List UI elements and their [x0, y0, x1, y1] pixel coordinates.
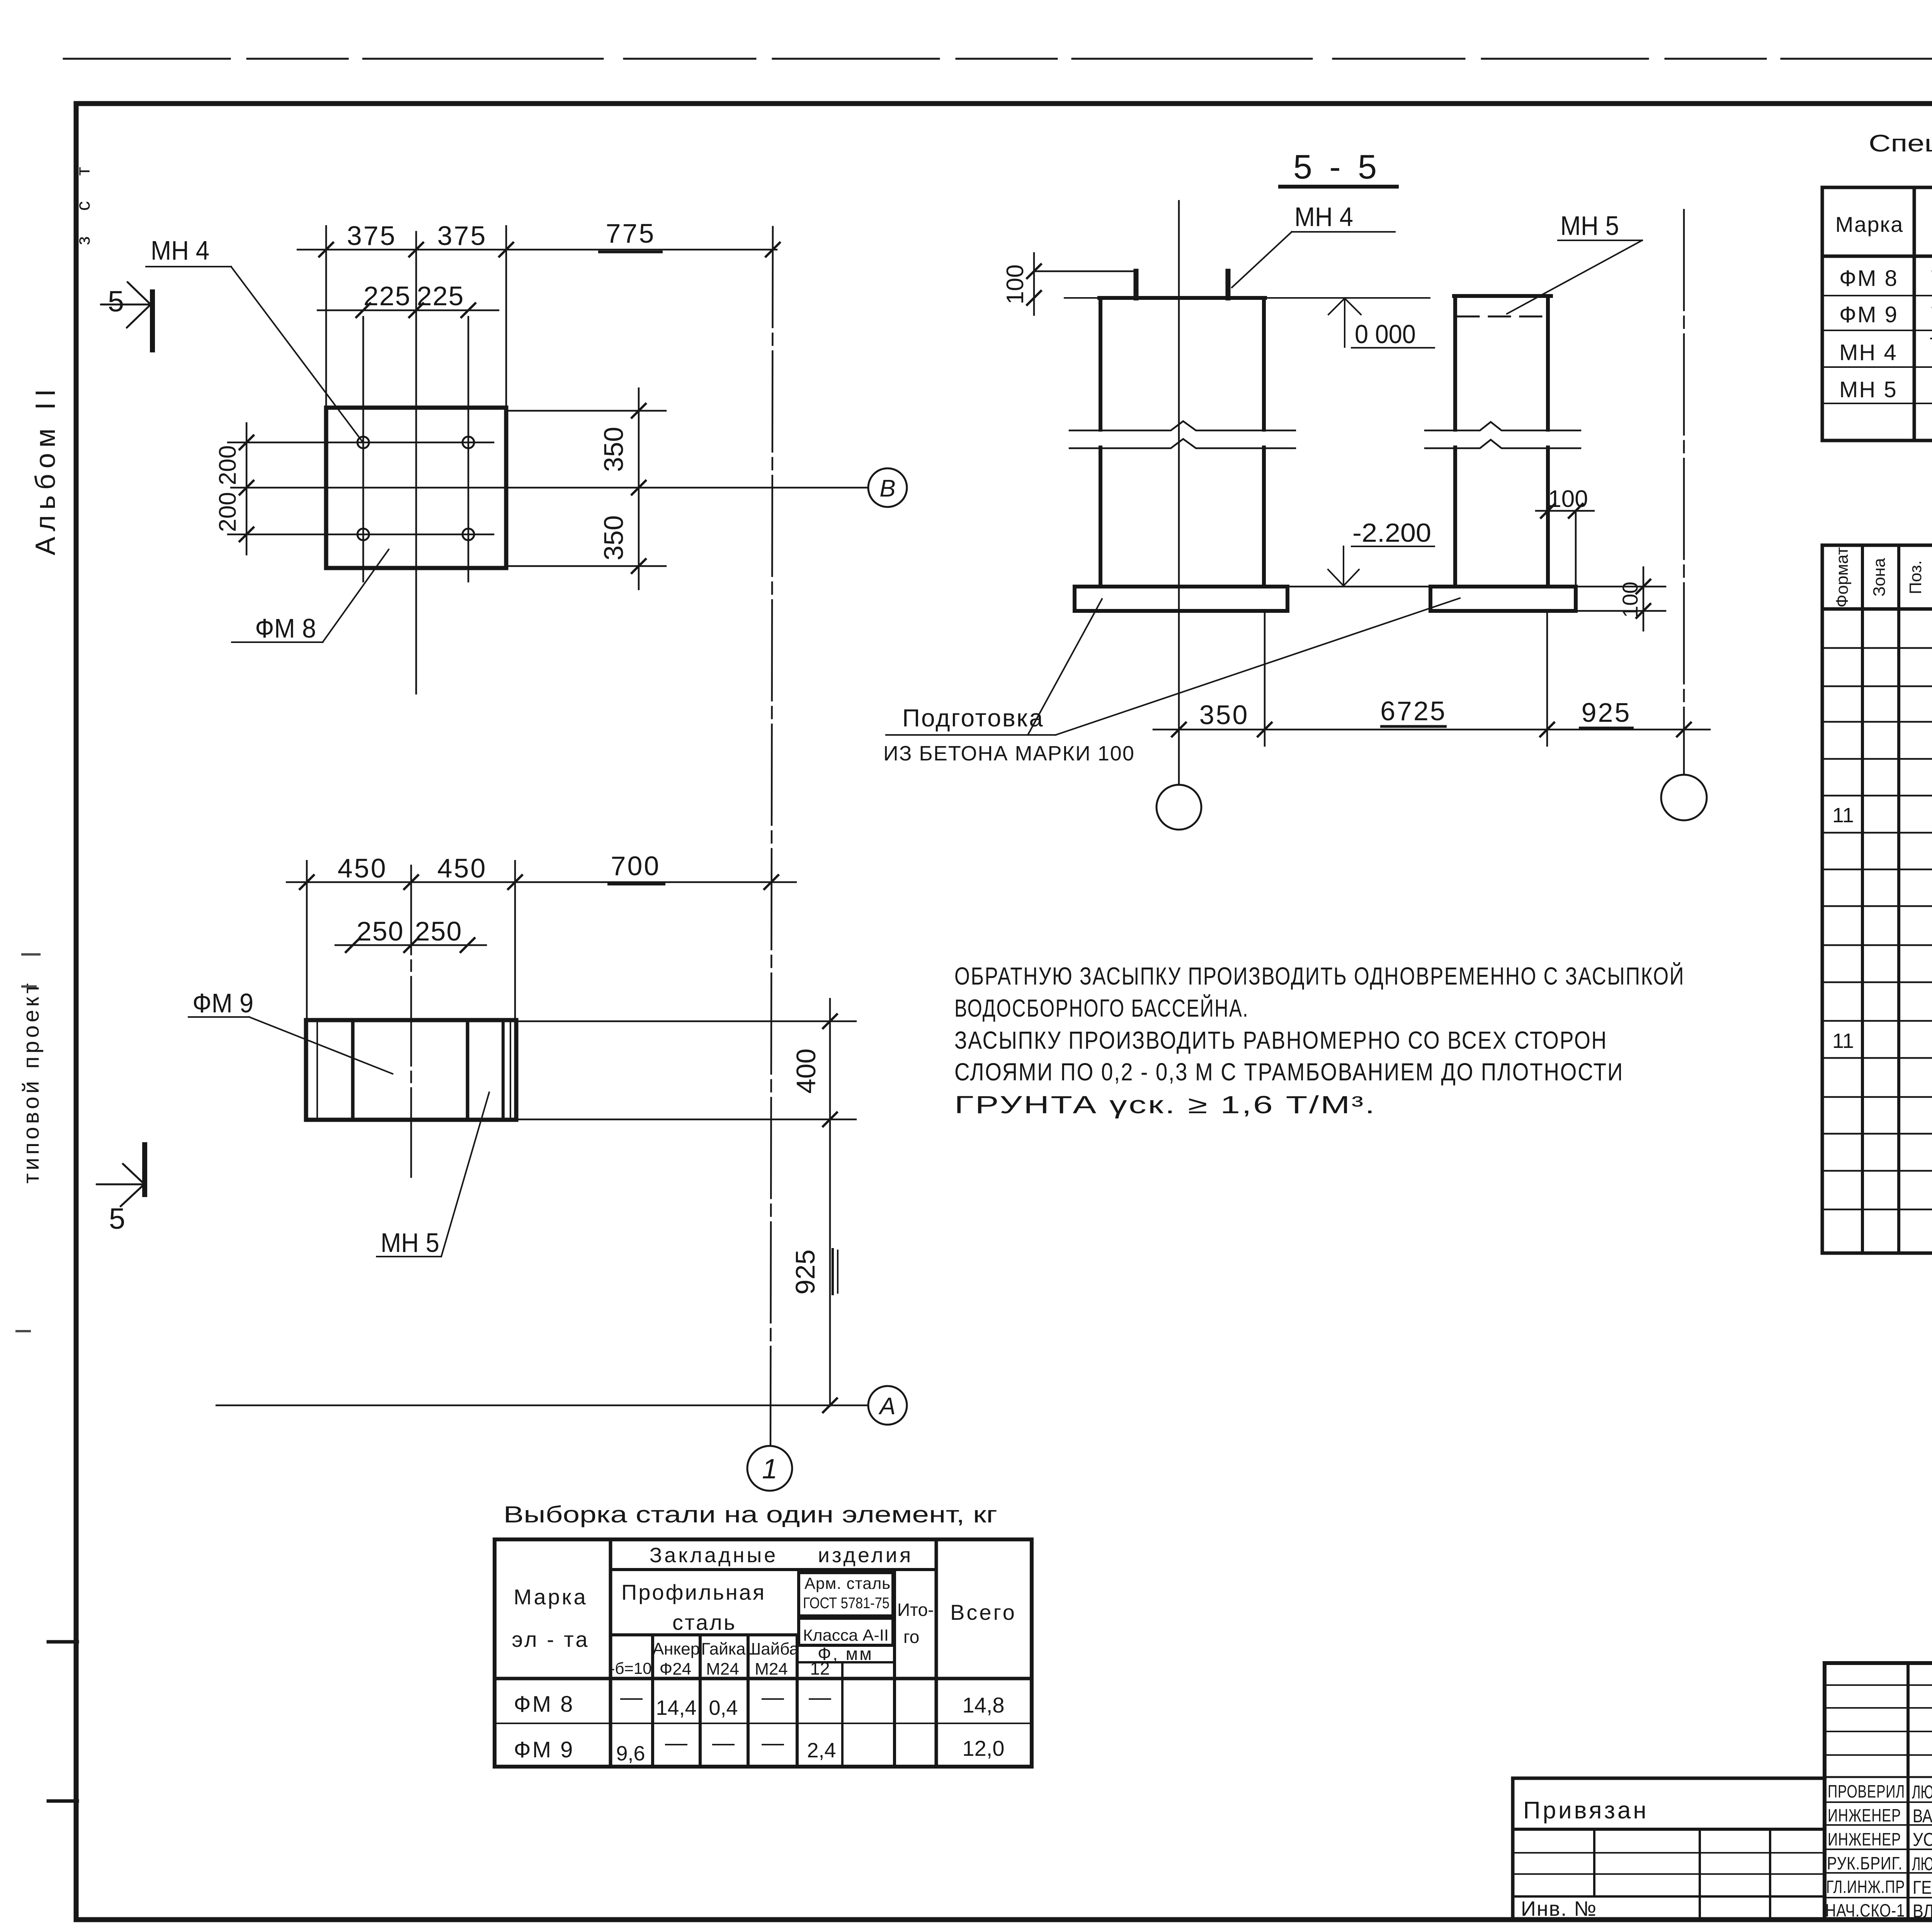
svg-text:—: — [762, 1730, 784, 1755]
extension pad top right [1578, 586, 1665, 588]
svg-text:Ито-: Ито- [897, 1600, 934, 1620]
steel f mm bottom [797, 1661, 893, 1663]
FM8 column left edge upper [1099, 298, 1102, 430]
svg-text:225: 225 [364, 281, 411, 311]
dim line 250-250 [335, 944, 486, 946]
FM8 column top edge [1099, 296, 1265, 300]
svg-text:ФМ 9: ФМ 9 [514, 1737, 575, 1762]
svg-text:ФМ 9: ФМ 9 [1839, 302, 1898, 327]
svg-text:В: В [879, 475, 895, 502]
foundation FM8 outline [326, 408, 506, 568]
svg-text:—: — [712, 1730, 735, 1755]
FM9 inner line thick left [351, 1020, 355, 1120]
svg-text:100: 100 [1618, 582, 1642, 617]
svg-text:350: 350 [1199, 700, 1249, 730]
FM9 column top edge [1454, 294, 1551, 298]
extension left pad edge down [1264, 613, 1266, 746]
svg-text:ИНЖЕНЕР: ИНЖЕНЕР [1828, 1829, 1901, 1849]
svg-text:ФМ 9: ФМ 9 [192, 988, 253, 1018]
svg-text:ГРУНТА γск. ≥ 1,6 Т/М³.: ГРУНТА γск. ≥ 1,6 Т/М³. [954, 1091, 1376, 1119]
svg-text:ПРОВЕРИЛ: ПРОВЕРИЛ [1828, 1781, 1905, 1801]
svg-text:Ф24: Ф24 [660, 1660, 691, 1679]
MN4 label line [1292, 231, 1395, 233]
svg-text:СЛОЯМИ ПО 0,2 - 0,3 М С ТРАМБО: СЛОЯМИ ПО 0,2 - 0,3 М С ТРАМБОВАНИЕМ ДО … [954, 1058, 1624, 1086]
100 dim extension top [1034, 270, 1135, 272]
svg-text:5 - 5: 5 - 5 [1293, 148, 1381, 186]
FM9 inner line double right a [502, 1020, 505, 1120]
FM8 horizontal centerline to grid B [231, 487, 868, 489]
svg-text:925: 925 [1582, 697, 1631, 728]
bolt row line upper [228, 442, 493, 444]
steel zakladnye header bottom [611, 1568, 936, 1571]
svg-text:6725: 6725 [1380, 696, 1447, 726]
MN5 label line [1558, 240, 1642, 241]
0.000 underline [1352, 347, 1434, 349]
signature table left edge [1823, 1663, 1827, 1920]
title block top edge [1825, 1661, 1932, 1665]
privyazan row bottom [1513, 1828, 1825, 1831]
svg-text:М24: М24 [706, 1660, 739, 1679]
dim line 450-450-700 [287, 881, 796, 883]
section mark 5 lower: arrowhead [123, 1164, 144, 1184]
svg-text:з с т: з с т [72, 157, 94, 245]
footing pad FM9 [1430, 587, 1576, 611]
section mark 5 lower: bar [142, 1142, 147, 1197]
footing pad FM8 [1075, 587, 1287, 611]
svg-text:Гайка: Гайка [701, 1639, 746, 1658]
extension pad bottom right [1578, 610, 1665, 612]
svg-text:375: 375 [437, 221, 487, 251]
steel klassa box [799, 1618, 893, 1645]
svg-text:-2.200: -2.200 [1352, 518, 1431, 548]
MN5 plate dashed [1458, 316, 1549, 318]
svg-text:ГЛ.ИНЖ.ПР: ГЛ.ИНЖ.ПР [1826, 1877, 1905, 1897]
dimension line 375-375-775 [298, 249, 777, 251]
svg-text:—: — [620, 1685, 643, 1710]
svg-text:925: 925 [790, 1250, 820, 1295]
bolt row line lower [228, 534, 493, 536]
svg-text:—: — [665, 1730, 687, 1755]
svg-text:100: 100 [1548, 486, 1588, 512]
svg-text:100: 100 [1002, 264, 1029, 304]
extension right col edge down [1546, 613, 1548, 746]
svg-text:МН 4: МН 4 [151, 235, 209, 265]
grid circle right under section [1661, 775, 1707, 820]
svg-text:225: 225 [417, 281, 464, 311]
MN5 leader to plate [1507, 240, 1642, 314]
privyazan box [1513, 1778, 1825, 1920]
MN5 leader [441, 1092, 489, 1257]
svg-text:ВАСИЛЬЕВА: ВАСИЛЬЕВА [1913, 1806, 1932, 1827]
podgotovka leader to left pad [1028, 599, 1102, 735]
FM9 column left edge lower [1453, 447, 1457, 587]
svg-text:РУК.БРИГ.: РУК.БРИГ. [1827, 1853, 1903, 1873]
svg-text:Альбом II: Альбом II [30, 384, 61, 555]
signature col name divider [1906, 1663, 1910, 1920]
svg-text:Марка: Марка [514, 1585, 587, 1609]
svg-text:ОБРАТНУЮ ЗАСЫПКУ ПРОИЗВОДИТЬ О: ОБРАТНУЮ ЗАСЫПКУ ПРОИЗВОДИТЬ ОДНОВРЕМЕНН… [954, 962, 1685, 990]
svg-text:МН 5: МН 5 [381, 1228, 439, 1258]
svg-text:0,4: 0,4 [709, 1696, 738, 1719]
svg-text:-б=10: -б=10 [609, 1659, 651, 1677]
anchor stub left [1134, 271, 1139, 298]
podgotovka leader to right pad [1056, 598, 1460, 735]
foundation FM9 outline [306, 1020, 516, 1120]
FM9 column left edge upper [1453, 296, 1457, 430]
extension right [514, 861, 516, 1020]
FM8 leader [323, 549, 389, 642]
extension top right [519, 1020, 856, 1022]
FM8 vertical centerline [415, 232, 417, 694]
section mark 5 upper: arrowhead [128, 282, 151, 305]
grid line 1 vertical dash-dot [770, 227, 773, 1445]
svg-text:ВЛАСКИН: ВЛАСКИН [1913, 1901, 1932, 1922]
steel sub col 4 [796, 1635, 799, 1767]
steel profilnaya bottom [611, 1633, 797, 1636]
anchor bolt MN4 bottom-left [357, 529, 369, 540]
fold tick left upper [48, 1640, 77, 1644]
MN5 label underline [377, 1256, 441, 1257]
svg-text:2,4: 2,4 [807, 1739, 836, 1762]
svg-text:Класса А-II: Класса А-II [803, 1626, 889, 1644]
svg-text:НАЧ.СКО-1: НАЧ.СКО-1 [1825, 1900, 1905, 1920]
FM9 inner line thick right [466, 1020, 469, 1120]
right extension bottom [509, 565, 666, 567]
FM9 inner line thin left [316, 1020, 318, 1120]
ticks of section 5-5 dims [1026, 264, 1042, 279]
svg-text:Закладные: Закладные [650, 1544, 778, 1567]
FM9 column right edge lower [1546, 447, 1550, 587]
100 dim vertical line [1033, 253, 1035, 315]
FM9 label underline [189, 1016, 249, 1018]
right dim line 400 [829, 999, 831, 1119]
FM9 centerline dash-dot [410, 866, 412, 1182]
spec1 col Marka [1913, 187, 1916, 440]
svg-text:Шайба: Шайба [745, 1639, 799, 1658]
svg-text:Поз.: Поз. [1906, 560, 1925, 594]
spec1 row line 3 [1822, 366, 1932, 368]
break line right column 1 [1425, 422, 1580, 430]
FM8 column left edge lower [1099, 447, 1102, 587]
MN4 leader to stub [1232, 232, 1292, 287]
svg-text:Всего: Всего [950, 1600, 1017, 1624]
break line left column 1 [1070, 421, 1295, 430]
svg-text:МН 5: МН 5 [1839, 377, 1898, 402]
svg-text:450: 450 [437, 853, 487, 883]
svg-text:Выборка стали на один элем: Выборка стали на один элемент, кг [503, 1502, 997, 1527]
svg-text:А: А [878, 1393, 895, 1420]
steel sub col 12 [841, 1662, 844, 1767]
FM9 inner line double right b [510, 1020, 511, 1120]
spec2 row lines [1822, 647, 1932, 649]
svg-text:Подготовка: Подготовка [902, 704, 1044, 732]
svg-text:700: 700 [611, 851, 661, 881]
svg-text:Привязан: Привязан [1523, 1797, 1649, 1824]
column centerline left [1178, 201, 1180, 785]
spec1 row line 1 [1822, 295, 1932, 296]
steel sub col 2 [699, 1635, 702, 1767]
svg-text:375: 375 [347, 221, 397, 251]
left margin small dashes [15, 954, 41, 1331]
fold tick left lower [48, 1799, 77, 1803]
svg-text:11: 11 [1832, 804, 1854, 827]
FM8 column right edge lower [1262, 447, 1266, 587]
svg-text:350: 350 [599, 427, 629, 472]
0.000 mark arrow [1344, 298, 1345, 347]
-2.200 underline [1352, 546, 1434, 547]
grid bubble A [868, 1386, 907, 1425]
steel header data separator [495, 1677, 1032, 1680]
grid bubble B [868, 468, 907, 507]
steel sub col 3 [747, 1635, 750, 1767]
svg-text:12: 12 [810, 1658, 830, 1679]
spec2 col zona [1897, 545, 1900, 1253]
svg-text:450: 450 [338, 853, 388, 883]
steel sub col 1 [651, 1635, 654, 1767]
extension left [306, 861, 308, 1020]
outer dashed album border top [64, 58, 1932, 60]
spec2 col format [1861, 545, 1864, 1253]
steel arm stal box [799, 1573, 893, 1616]
bolt column line right [468, 317, 469, 582]
grid line right dash-dot [1683, 210, 1685, 775]
ticks of FM8 dims [318, 242, 334, 257]
signature rows upper [1825, 1684, 1932, 1686]
section mark 5 upper: arrow shaft [101, 304, 149, 306]
svg-text:эл - та: эл - та [512, 1627, 590, 1651]
svg-text:12,0: 12,0 [963, 1736, 1005, 1760]
grid line A horizontal [216, 1405, 868, 1406]
100 dim right top: line [1536, 510, 1594, 512]
svg-text:—: — [762, 1685, 784, 1710]
extension bottom right [519, 1119, 856, 1121]
svg-text:го: го [903, 1627, 919, 1647]
svg-text:УСКОВА: УСКОВА [1913, 1830, 1932, 1850]
svg-text:Анкер: Анкер [653, 1639, 700, 1658]
FM9 leader [249, 1017, 393, 1074]
privyazan thin rows [1513, 1852, 1825, 1854]
svg-text:ФМ 8: ФМ 8 [255, 613, 316, 643]
extension line right [505, 226, 507, 408]
svg-text:МН 4: МН 4 [1839, 340, 1898, 365]
anchor stub right [1226, 271, 1231, 298]
svg-text:ЗАСЫПКУ ПРОИЗВОДИТЬ РАВНОМЕРНО: ЗАСЫПКУ ПРОИЗВОДИТЬ РАВНОМЕРНО СО ВСЕХ С… [954, 1026, 1607, 1054]
extension line left [325, 226, 327, 408]
svg-text:типовой проект: типовой проект [19, 980, 44, 1184]
svg-text:ФМ 8: ФМ 8 [514, 1692, 575, 1717]
right dim line 350-350 [638, 388, 640, 589]
svg-text:МН 5: МН 5 [1560, 211, 1619, 241]
podgotovka underline [886, 734, 1056, 736]
steel outer box [495, 1539, 1032, 1767]
svg-text:изделия: изделия [818, 1544, 913, 1567]
MN4 label underline [146, 266, 231, 267]
svg-text:сталь: сталь [672, 1610, 736, 1634]
-2.200 mark arrow [1343, 546, 1344, 584]
svg-text:ЛЮБОПЫТОВА: ЛЮБОПЫТОВА [1912, 1782, 1932, 1803]
FM8 label underline [232, 641, 323, 643]
steel row separator [495, 1723, 1032, 1724]
section mark 5 lower: arrow shaft [97, 1184, 141, 1185]
svg-text:ФМ 8: ФМ 8 [1839, 266, 1898, 291]
svg-text:775: 775 [606, 218, 656, 248]
svg-text:Профильная: Профильная [621, 1580, 766, 1604]
spec2 header bottom [1822, 607, 1932, 611]
svg-text:200: 200 [214, 492, 241, 532]
break line right column 2 [1425, 440, 1580, 448]
100 dim right rotated: line [1643, 567, 1645, 631]
section mark 5 upper: bar [150, 289, 155, 352]
steel col vsego [935, 1539, 938, 1767]
FM9 column right edge upper [1546, 296, 1550, 430]
FM8 column right edge upper [1262, 298, 1266, 430]
steel col marka [609, 1539, 612, 1767]
level line between pads [1287, 586, 1430, 588]
dimension line 225-225 [318, 310, 498, 311]
svg-text:—: — [809, 1685, 831, 1710]
svg-text:Формат: Формат [1833, 547, 1852, 607]
svg-text:9,6: 9,6 [616, 1742, 645, 1765]
svg-text:Спецификация элементов к мар: Спецификация элементов к маркировочной с… [1869, 130, 1932, 157]
dim line 925 vertical [829, 1119, 831, 1406]
spec2 outer box [1822, 545, 1932, 1253]
ground level line 0.000 [1065, 297, 1430, 299]
svg-text:МН 4: МН 4 [1294, 202, 1353, 232]
privyazan verticals [1593, 1829, 1595, 1896]
svg-text:5: 5 [108, 285, 124, 318]
svg-text:400: 400 [791, 1049, 821, 1094]
svg-text:250: 250 [415, 916, 463, 946]
right extension top [509, 410, 666, 412]
svg-text:350: 350 [599, 515, 629, 561]
svg-text:11: 11 [1832, 1029, 1854, 1053]
svg-text:1: 1 [762, 1454, 777, 1485]
anchor bolt MN4 top-left [357, 437, 369, 448]
break line left column 2 [1070, 439, 1295, 448]
spec1 outer box [1822, 187, 1932, 440]
steel itogo divider [893, 1570, 896, 1767]
svg-text:М24: М24 [755, 1660, 788, 1679]
anchor bolt MN4 bottom-right [463, 529, 474, 540]
svg-text:0 000: 0 000 [1355, 320, 1416, 349]
spec1 header bottom [1822, 255, 1932, 258]
svg-text:Инв. №: Инв. № [1521, 1897, 1597, 1920]
bottom dim line 350-6725-925 [1153, 729, 1710, 731]
signature names [1912, 1782, 1932, 1922]
100 dim right top: extension [1575, 511, 1577, 587]
svg-text:Арм. сталь: Арм. сталь [804, 1574, 891, 1592]
svg-text:ТП 901-6 -61: ТП 901-6 -61 [1930, 334, 1932, 356]
svg-text:ГЕНИШТА: ГЕНИШТА [1913, 1878, 1932, 1898]
svg-text:ИНЖЕНЕР: ИНЖЕНЕР [1828, 1805, 1901, 1825]
svg-text:200: 200 [214, 445, 241, 485]
grid circle left under section [1156, 785, 1201, 830]
svg-text:ИЗ БЕТОНА МАРКИ 100: ИЗ БЕТОНА МАРКИ 100 [883, 742, 1135, 765]
svg-text:14,8: 14,8 [963, 1693, 1005, 1717]
left dim line 200-200 [246, 423, 248, 554]
grid bubble 1 [747, 1446, 792, 1491]
svg-text:ГОСТ 5781-75: ГОСТ 5781-75 [803, 1595, 889, 1612]
anchor bolt MN4 top-right [463, 437, 474, 448]
svg-text:ВОДОСБОРНОГО БАССЕЙНА.: ВОДОСБОРНОГО БАССЕЙНА. [954, 994, 1249, 1022]
svg-text:5: 5 [109, 1202, 125, 1235]
MN4 leader [231, 267, 362, 442]
signature rows lower [1825, 1801, 1932, 1803]
svg-text:ЛЮБОПЫТОВА: ЛЮБОПЫТОВА [1912, 1854, 1932, 1874]
spec1 row line 4 [1822, 403, 1932, 404]
signature labels [1825, 1781, 1905, 1920]
svg-text:250: 250 [357, 916, 404, 946]
svg-text:Марка: Марка [1835, 212, 1903, 236]
svg-text:14,4: 14,4 [656, 1696, 696, 1719]
bolt column line left [362, 317, 364, 582]
svg-text:Зона: Зона [1870, 558, 1889, 597]
ticks of FM9 dims [299, 874, 315, 890]
spec1 row line 2 [1822, 330, 1932, 331]
